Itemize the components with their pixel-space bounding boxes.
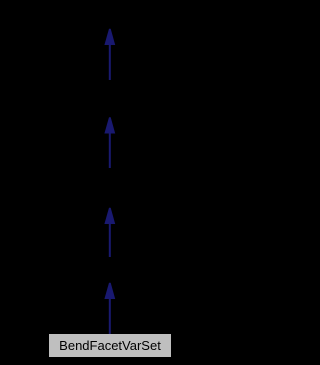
inheritance diagram canvas	[0, 0, 220, 365]
inheritance arrow 3	[104, 208, 115, 257]
inheritance arrow 4 (into BendFacetVarSet box)	[104, 283, 115, 334]
node BendFacetVarSet (current class, grey fill)	[49, 334, 171, 357]
inheritance arrow 1 (topmost)	[104, 29, 115, 80]
inheritance arrow 2	[104, 117, 115, 168]
